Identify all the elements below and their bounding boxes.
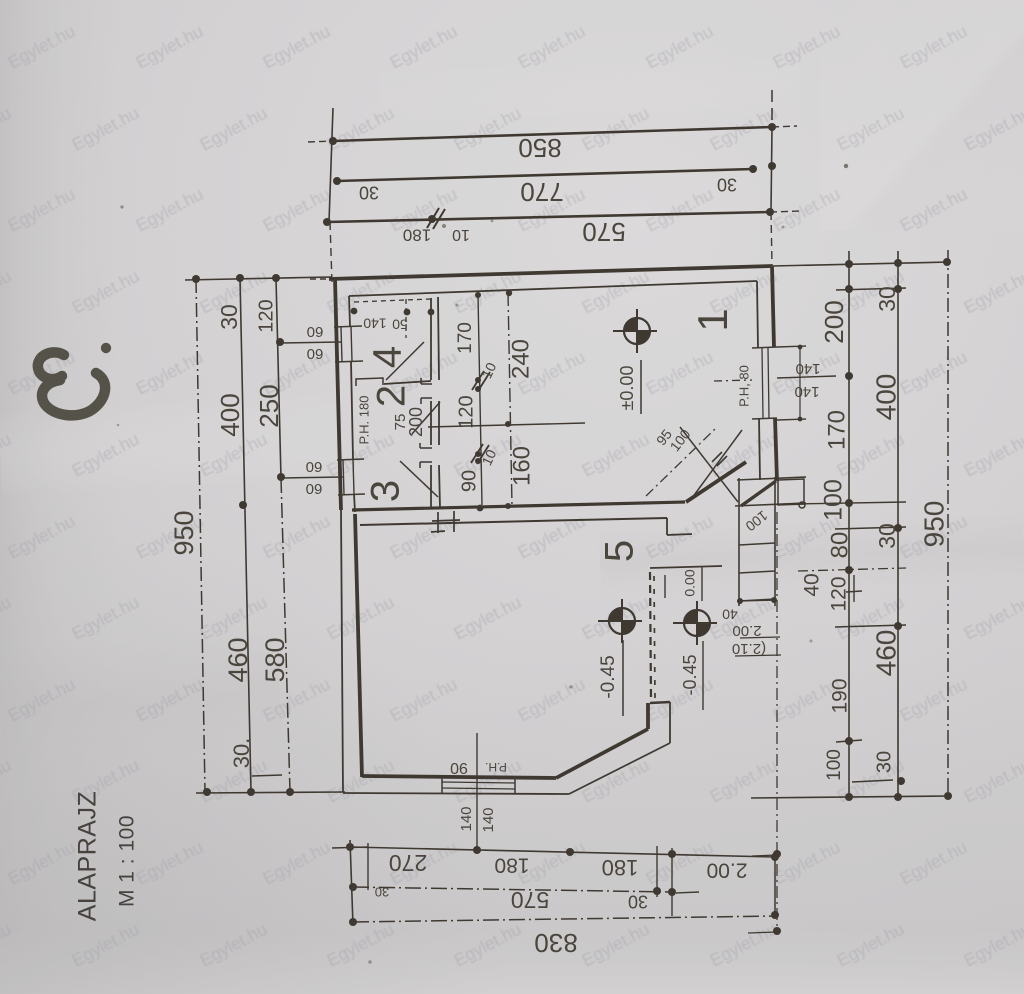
right col2 dot289 (894, 285, 902, 293)
note 2.00 underline (740, 637, 780, 638)
level -0.45 left underline (622, 640, 624, 716)
W2 pane line b (353, 459, 354, 494)
bottom col x350 (350, 840, 353, 925)
dim 850 ext right (772, 126, 797, 127)
level -0.45 entrance underline (702, 641, 704, 710)
entrance niche vertical (666, 518, 668, 535)
diag wall hatch b (717, 456, 727, 466)
room2 door swing (412, 402, 440, 434)
b r3 dot2 (771, 911, 779, 919)
dim 770 left dot (333, 177, 341, 185)
dim 570 mid dot (428, 215, 436, 223)
left wall outer upper (335, 279, 341, 510)
left dim chain line A (240, 278, 251, 792)
top dim left connector ext (330, 222, 332, 283)
entrance steps v right (774, 477, 776, 606)
entrance tread 2 (739, 571, 775, 573)
left dim chain line B lower (281, 478, 290, 792)
left chainB dot W1 (276, 338, 284, 346)
b r2 dot1 (349, 883, 357, 891)
terrace edge thin (664, 575, 666, 598)
bottom 30 stub (367, 843, 369, 890)
bottom wall outer (343, 793, 569, 794)
top dim right connector ext (771, 212, 772, 265)
left bottom dot3 (286, 788, 294, 796)
x478 dot4 (475, 451, 481, 457)
level 0.00 entrance underline (701, 566, 703, 601)
bottom row3 line (353, 916, 775, 922)
entrance diag wall inner (741, 481, 776, 506)
left chainA tick 775 (252, 775, 282, 776)
b r1 dot3 (566, 848, 574, 856)
x508 dot2 (505, 503, 511, 509)
dim tick pair a (427, 208, 439, 228)
W2 jamb bot (338, 494, 365, 495)
right door pane b (768, 348, 769, 418)
terrace edge dashed a (650, 572, 651, 700)
right door jamb top (752, 347, 777, 348)
top wall inner (349, 281, 757, 296)
x478 dot5 (475, 458, 481, 464)
left dims bottom connector (196, 792, 345, 793)
room4 dim dot a (351, 308, 358, 315)
room4 dim dot b (404, 309, 411, 316)
note 2.10 underline (735, 655, 781, 656)
right bottom dot3 (944, 792, 952, 800)
room4-2 partition (384, 381, 431, 384)
right door axis dash (714, 380, 752, 381)
top dim right connector stub (771, 90, 773, 122)
room3 door swing (400, 461, 438, 497)
top wall outer (329, 266, 772, 279)
right door tick bot (777, 419, 806, 420)
speck d (456, 304, 459, 307)
bottom wall inner (362, 776, 556, 778)
right tick y289 (836, 288, 906, 290)
corridor wall outer (352, 502, 685, 510)
right wall inner upper (757, 281, 758, 348)
dim 850 ext left (308, 141, 333, 142)
right dash y570 (798, 568, 906, 571)
tick cross v (853, 575, 855, 602)
W1 pane line a (341, 327, 342, 361)
bottom row2 line (353, 887, 672, 892)
level 0.00 underline (640, 360, 642, 414)
entrance niche horizontal (667, 534, 692, 535)
dim 850 left dot (329, 137, 337, 145)
dim 570 ext right (770, 211, 801, 212)
entrance tread 1 (739, 543, 775, 545)
dim 770 right dot (749, 165, 757, 173)
b r1 dot1 (346, 843, 354, 851)
room3 door jamb top (420, 443, 432, 448)
left wall inner thick lower (355, 514, 362, 777)
left wall outer lower (341, 510, 343, 792)
x478 dot3 (475, 386, 481, 392)
entrance landing square (778, 479, 804, 505)
entrance platform h2 (735, 503, 806, 506)
bottom window pane a (442, 782, 515, 783)
right bottom dot2 (894, 793, 902, 801)
bottom tick x676 (676, 892, 699, 893)
dim 570 left dot (323, 218, 331, 226)
x478 dot6 (477, 505, 484, 512)
W2 pane line a (343, 460, 344, 494)
bottom row1 tick left (332, 847, 368, 848)
right col1 dot741 (845, 737, 853, 745)
right tick y503 (792, 502, 906, 504)
entrance diag wall outer (686, 462, 746, 502)
bottom row1 line (350, 847, 775, 857)
bottom window pane b (442, 788, 515, 789)
right dims top connector (772, 262, 950, 266)
left wall inner upper (349, 296, 350, 326)
left dim 950 line (196, 279, 205, 792)
partition wall right face mid (438, 401, 440, 445)
level mark room1 (613, 309, 657, 353)
right tick y376 (777, 376, 836, 378)
terrace edge dashed b (654, 576, 655, 700)
right tick y781 (852, 780, 893, 782)
speck h (368, 960, 372, 964)
x508 dot1 (505, 421, 511, 427)
speck f (569, 685, 572, 688)
partition wall right face upper (438, 297, 439, 380)
left connector dot2 (236, 274, 244, 282)
left wall inner seg3 (354, 494, 355, 512)
interior h dim y425 (428, 423, 585, 427)
right 30b dot (897, 777, 905, 785)
tick cross h (846, 591, 862, 592)
right col1 dot289 (845, 285, 853, 293)
dim 850 right dot (768, 123, 776, 131)
right col1 dot570 (845, 566, 853, 574)
W2 jamb top (337, 459, 364, 460)
right bottom connector (751, 796, 951, 798)
left bottom dot1 (203, 788, 211, 796)
b r1 dot4 (668, 850, 676, 858)
room4 axis dashed (405, 299, 407, 338)
bottom window jamb a (441, 776, 443, 794)
entrance door swing a (680, 427, 738, 502)
bay top cap (650, 702, 670, 703)
speck j (782, 226, 785, 229)
top dim left connector (329, 108, 333, 222)
b r3 dot1 (349, 918, 357, 926)
dim 40 line (737, 600, 776, 601)
dim40 dot b (771, 597, 777, 603)
speck i (844, 164, 848, 168)
right col2 dot626 (894, 622, 902, 630)
W1 jamb top (334, 326, 362, 327)
right top dot3 (943, 258, 951, 266)
dim 30tr dot (768, 162, 776, 170)
entrance tread 3 (739, 599, 775, 601)
right col1 dot376 (845, 372, 853, 380)
partition wall left face upper (430, 298, 432, 380)
entrance steps v left (738, 478, 740, 606)
speck c (491, 220, 494, 223)
window W2 mid tick (283, 477, 343, 478)
axis dot 931 (773, 927, 781, 935)
diag wall hatch a (712, 452, 722, 462)
x478 dot2 (475, 377, 481, 383)
right col2 dot528 (894, 524, 902, 532)
left bottom dot2 (247, 788, 255, 796)
right top dot1 (845, 260, 853, 268)
right tick y741 (836, 740, 862, 742)
room3 door jamb bottom (420, 462, 432, 468)
entrance small circle (799, 502, 805, 508)
room2 door jamb top (421, 378, 432, 384)
right top dot2 (894, 259, 902, 267)
window W1 mid tick (280, 342, 341, 343)
level mark terrace left (598, 599, 642, 643)
b r2 dot3 (668, 888, 676, 896)
corridor wall inner (360, 518, 667, 525)
right door pane a (762, 348, 763, 418)
left chainB mid dot (277, 473, 285, 481)
speck g (810, 640, 813, 643)
axis dot 854 (773, 850, 781, 858)
bottom x672 stub (671, 848, 673, 916)
top wall outer ext left (310, 278, 329, 280)
room4 door bracket (356, 378, 383, 386)
b r2 dot2 (653, 887, 661, 895)
right door jamb bot (752, 418, 777, 419)
partition wall left face mid (430, 401, 432, 445)
left dims top connector (185, 277, 332, 280)
bay diag outer (569, 743, 670, 794)
interior dim line x478 (478, 295, 482, 505)
W1 pane line b (351, 326, 352, 361)
right wall outer upper (772, 266, 774, 347)
right door dim dot top (798, 345, 803, 350)
W1 jamb bot (335, 361, 363, 362)
room4 window dim dashed (354, 299, 431, 302)
top dim right connector (771, 127, 772, 212)
room2 door jamb bottom (421, 398, 432, 404)
dim40 dot a (737, 598, 743, 604)
axis line x508 (508, 292, 512, 506)
right tick y528 (835, 527, 906, 529)
handwritten page number 3 (38, 352, 105, 415)
x478 tickpair1 b (478, 372, 490, 391)
speck a (120, 205, 123, 208)
left wall inner seg2 (351, 361, 353, 459)
right door dim dot bot (798, 417, 803, 422)
x478 dot1 (475, 292, 481, 298)
right dim col3 950 (947, 250, 949, 796)
partition wall right face lower (439, 465, 440, 508)
x478 tickpair2 b (477, 445, 489, 464)
right wall axis ext (776, 512, 778, 932)
right col1 dot503 (845, 499, 853, 507)
b r1 dot5 (771, 853, 779, 861)
room4 dim dot c (428, 309, 435, 316)
entrance axis diag (646, 428, 716, 496)
bay diag inner (556, 729, 648, 778)
left connector dot1 (192, 275, 200, 283)
right wall outer lower (775, 418, 777, 481)
entrance bottom edge (650, 566, 722, 568)
level mark entrance (673, 601, 717, 645)
dim 570 right dot (766, 208, 774, 216)
dim 850 line (333, 127, 772, 141)
x478 tickpair2 a (471, 444, 483, 463)
partition wall left face lower (430, 465, 432, 509)
left chainA mid dot (239, 501, 247, 509)
right dim col2 (897, 251, 899, 798)
right wall inner lower (759, 418, 760, 480)
left dim chain line B (276, 278, 281, 478)
b r1 dot2 (473, 846, 481, 854)
dim 770 line (337, 169, 753, 181)
bottom window jamb b (514, 776, 516, 794)
corridor door symbol (431, 511, 460, 533)
x478 tickpair1 a (472, 371, 484, 390)
bottom x657 stub (656, 846, 658, 897)
dim 570 line (327, 212, 770, 222)
axis x508 top dot (506, 290, 512, 296)
left connector dot3 (272, 274, 280, 282)
bay right outer (669, 702, 671, 743)
axis tick 854 (752, 855, 777, 856)
bottom x775 stub (774, 855, 776, 917)
right door tick top (777, 346, 806, 347)
dim tick pair b (433, 209, 445, 229)
right bottom dot1 (845, 793, 853, 801)
right door dim line (799, 346, 801, 420)
bay right inner (646, 703, 650, 729)
bottom 140 dim line (476, 733, 478, 850)
right tick y626 (835, 625, 906, 627)
axis tick 931 (748, 932, 777, 933)
speck b (442, 224, 446, 228)
entrance door swing b (692, 430, 742, 498)
right dim col1 (848, 251, 850, 797)
room4 door swing (386, 342, 424, 380)
entrance platform h1 (737, 477, 806, 480)
speck e (117, 424, 120, 427)
